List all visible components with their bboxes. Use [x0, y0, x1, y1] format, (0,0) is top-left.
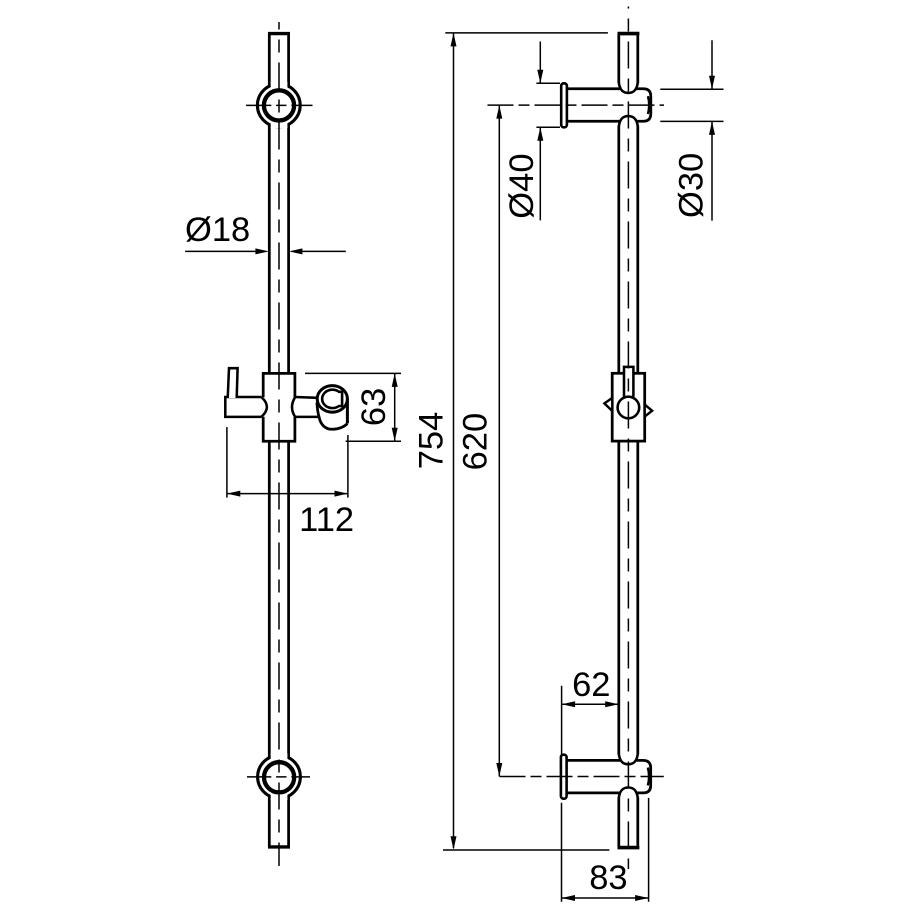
svg-text:112: 112: [299, 501, 354, 539]
svg-text:Ø18: Ø18: [185, 211, 250, 249]
svg-text:62: 62: [572, 666, 610, 704]
svg-text:620: 620: [456, 413, 494, 471]
svg-text:754: 754: [413, 412, 451, 470]
svg-text:83: 83: [589, 859, 627, 897]
svg-text:Ø40: Ø40: [503, 153, 541, 218]
svg-text:63: 63: [355, 388, 393, 426]
svg-text:Ø30: Ø30: [672, 153, 710, 218]
